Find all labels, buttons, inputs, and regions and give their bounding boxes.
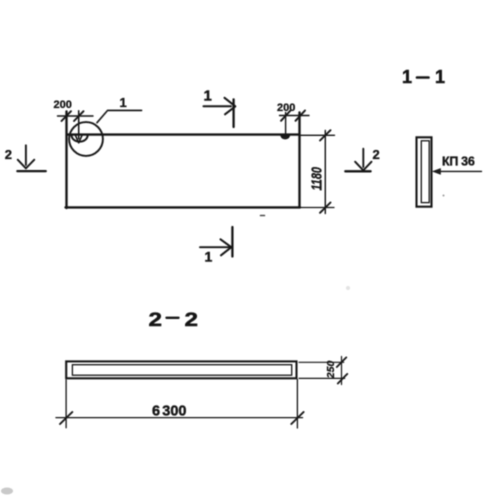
dimension 1180: tick marks [320,130,331,213]
section 1-1 panel inner outline [421,141,429,203]
dimension 6300: tick marks [60,412,304,424]
svg-text:1: 1 [205,249,213,265]
dimension 6300: dimension line [56,417,303,419]
section marker 2 right: arrow [362,149,364,167]
section marker 1 bottom: section line [231,227,233,257]
svg-text:200: 200 [54,99,72,111]
dimension 200 left: tick marks [62,111,84,121]
dimension 250: dimension line [341,357,343,385]
section marker 2 left: section line [17,170,45,172]
svg-text:200: 200 [277,102,295,114]
dimension 1180: dimension line [324,131,326,214]
svg-text:1: 1 [402,67,412,87]
section marker 1 top: section line [232,99,234,127]
svg-text:2: 2 [185,309,199,331]
svg-text:6300: 6300 [152,403,186,419]
svg-text:250: 250 [325,361,337,380]
section 1-1 panel outer outline [417,137,432,206]
dimension 6300: extension lines [66,380,297,429]
dimension 250: tick marks [337,357,348,383]
panel plan view outline [66,112,301,209]
detail callout circle [69,122,103,156]
svg-text:2: 2 [5,147,12,162]
top edge extension line to 1180 dimension [300,134,335,136]
dimension 200 left: dimension line [58,115,94,117]
section marker 1 bottom: arrow [200,246,229,248]
svg-text:1: 1 [435,67,445,87]
dimension 200 right: tick marks [281,111,305,121]
svg-text:1: 1 [120,95,127,110]
scan speckles [261,215,265,217]
svg-text:КП 36: КП 36 [442,155,475,169]
section 2-2 panel outer outline [66,361,296,378]
section marker 2 right: section line [345,170,370,172]
bottom edge extension line to 1180 dimension [300,207,334,209]
dimension 200 left: arrow line into loop [78,111,80,139]
section marker 2 left: arrow [25,145,27,165]
lifting loop notch (left) [72,135,88,142]
dimension 250: extension lines [299,362,345,378]
label KP36 leader arrow [438,170,482,172]
svg-text:2: 2 [373,147,380,162]
svg-text:1180: 1180 [310,167,326,191]
section marker 1 top: arrow [204,105,232,107]
dimension 200 right: dimension line [280,115,310,117]
section 2-2 panel inner outline [72,365,291,376]
lifting loop mark (right) [281,136,290,139]
detail leader line [97,110,142,122]
svg-text:1: 1 [204,88,212,105]
dimension 200 right: extension line [285,113,287,134]
svg-text:2: 2 [149,309,163,331]
